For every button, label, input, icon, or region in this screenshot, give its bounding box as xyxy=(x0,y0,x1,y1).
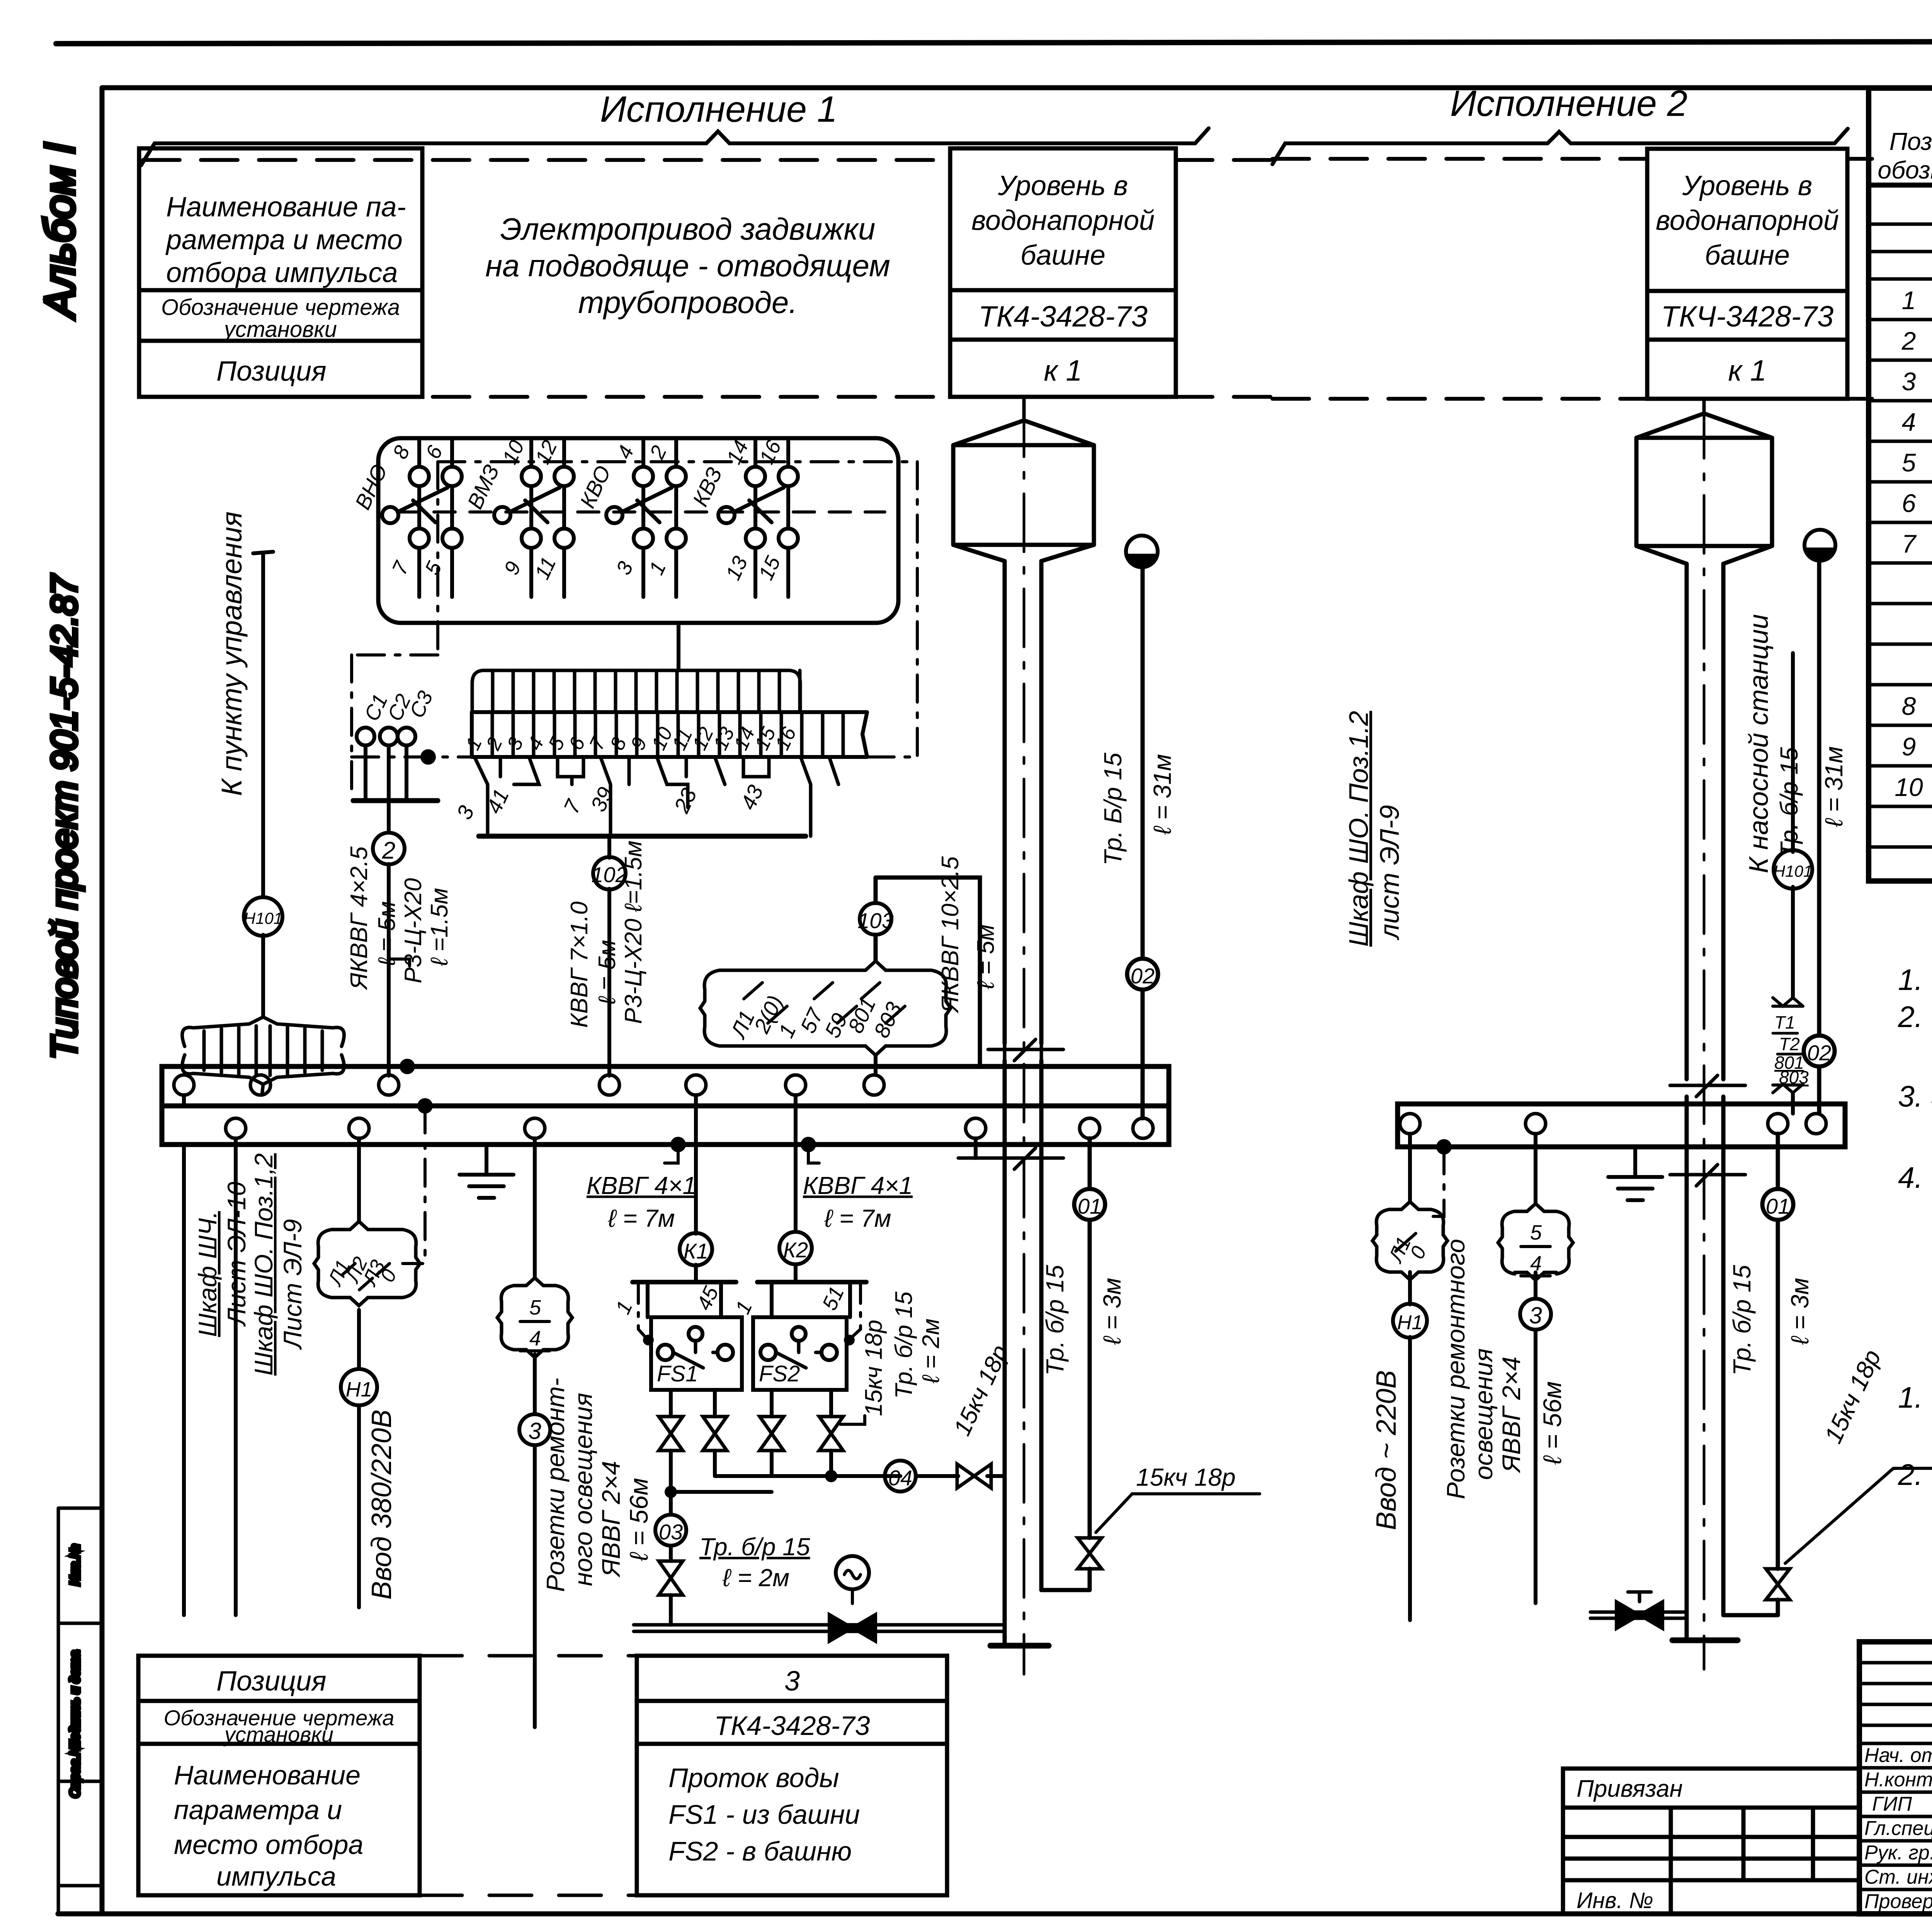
svg-text:установки: установки xyxy=(223,1722,333,1747)
position table right box xyxy=(637,1656,947,1895)
level box exec1 xyxy=(950,148,1176,397)
svg-text:Т1: Т1 xyxy=(1774,1012,1795,1032)
bus1 terminal circles bottom row xyxy=(226,1118,1153,1138)
svg-text:15кч 18р: 15кч 18р xyxy=(861,1320,887,1416)
stub wire at bus1 xyxy=(974,1138,978,1158)
svg-text:02: 02 xyxy=(1131,964,1155,988)
svg-text:Р3-Ц-Х20: Р3-Ц-Х20 xyxy=(400,878,427,983)
collect line 04 xyxy=(715,1474,1005,1478)
ground symbol at bus1 xyxy=(459,1145,514,1198)
terminal bottom rail xyxy=(479,834,806,839)
junction dot xyxy=(420,749,436,765)
svg-text:03: 03 xyxy=(659,1520,683,1544)
svg-text:ЯКВВГ 4×2.5: ЯКВВГ 4×2.5 xyxy=(346,846,372,990)
sensor float tower1 xyxy=(1126,536,1158,567)
tower1 taper xyxy=(953,545,1094,561)
svg-text:Р3-Ц-Х20 ℓ=1.5м: Р3-Ц-Х20 ℓ=1.5м xyxy=(620,840,647,1024)
BOM table grid xyxy=(1869,88,1932,881)
svg-text:Н.контр.: Н.контр. xyxy=(1864,1769,1932,1791)
marker 02 t2 xyxy=(1804,1036,1835,1066)
svg-text:1. Позиции приборов указаны: 1. Позиции приборов указаны по чертежу Э… xyxy=(1898,963,1932,997)
wire xyxy=(261,935,265,1017)
tower2 tank xyxy=(1636,438,1772,546)
wire to control point xyxy=(253,552,273,897)
position table left box xyxy=(138,1656,420,1895)
wire xyxy=(262,1084,263,1095)
leader 15кч18р t2 xyxy=(1785,1468,1932,1563)
terminal jumper tabs xyxy=(474,757,838,836)
valve on 01 t1 xyxy=(1078,1538,1102,1569)
valve xyxy=(659,1417,683,1451)
wire from brace to bus xyxy=(874,1055,878,1075)
svg-text:водонапорной: водонапорной xyxy=(1656,205,1839,236)
contact group КВЗ xyxy=(755,438,788,597)
svg-text:Позиция: Позиция xyxy=(216,1666,327,1697)
svg-text:лист ЭЛ-9: лист ЭЛ-9 xyxy=(1374,805,1405,940)
svg-text:Шкаф ШО. Поз.1,2: Шкаф ШО. Поз.1,2 xyxy=(249,1153,278,1376)
braced wire list Л1..803 xyxy=(700,970,719,1046)
tower2 center line xyxy=(1703,400,1706,1669)
dash-dot link to pos 2 xyxy=(403,1106,425,1264)
valve xyxy=(703,1417,727,1451)
cable marker Н1 exec2 xyxy=(1393,1304,1427,1338)
switch block rounded box xyxy=(378,438,898,623)
svg-text:FS2 - в башню: FS2 - в башню xyxy=(668,1836,852,1866)
impulse pipe 02 t2 xyxy=(1817,561,1821,1114)
svg-text:Наименование па-: Наименование па- xyxy=(166,192,406,223)
svg-text:Н1: Н1 xyxy=(1397,1311,1423,1334)
impulse pipe 02 t1 xyxy=(1141,567,1145,1118)
svg-text:ЯВВГ 2×4: ЯВВГ 2×4 xyxy=(1497,1357,1526,1473)
svg-text:башне: башне xyxy=(1020,240,1105,271)
junction dot bus1 c xyxy=(670,1137,686,1152)
svg-text:Тр. б/р 15: Тр. б/р 15 xyxy=(891,1291,917,1399)
svg-text:8: 8 xyxy=(1902,692,1916,720)
svg-text:3. Защитное зануление выполн: 3. Защитное зануление выполнить согласно… xyxy=(1898,1080,1932,1113)
cable marker 103 xyxy=(860,903,891,935)
terminal С2 xyxy=(380,728,398,745)
svg-text:3: 3 xyxy=(1529,1303,1542,1328)
impulse pipe 01 t2 xyxy=(1723,1134,1778,1615)
wire cable 103 elbow xyxy=(876,878,980,1066)
tower2 bottom pipe xyxy=(1590,1612,1687,1618)
tower1 shaft break marks xyxy=(958,1039,1063,1169)
svg-text:установки: установки xyxy=(223,317,337,342)
level box exec2 xyxy=(1647,149,1847,399)
terminal С3 xyxy=(398,728,415,745)
svg-text:Тр. б/р 15: Тр. б/р 15 xyxy=(1775,747,1803,858)
svg-text:Инв. №: Инв. № xyxy=(1577,1888,1653,1913)
tower2 taper xyxy=(1636,546,1772,564)
wire H1 input xyxy=(357,1138,361,1607)
svg-text:4: 4 xyxy=(1902,408,1916,436)
svg-text:освещения: освещения xyxy=(1469,1348,1498,1480)
bus box execution 2 xyxy=(1398,1104,1845,1147)
bus2 terminal circles xyxy=(1400,1114,1826,1134)
svg-text:2: 2 xyxy=(1901,327,1916,355)
svg-text:4: 4 xyxy=(1530,1252,1542,1275)
dashed zone line top, execution 1 xyxy=(143,158,950,162)
svg-text:4: 4 xyxy=(529,1327,541,1350)
svg-text:Уровень в: Уровень в xyxy=(998,170,1128,201)
svg-text:Шкаф ШО. Поз.1.2: Шкаф ШО. Поз.1.2 xyxy=(1344,711,1374,947)
junction dot bus2 xyxy=(1436,1139,1452,1155)
svg-text:2. Определить марку и сече: 2. Определить марку и сечение кабелей Н1… xyxy=(1898,1458,1932,1492)
tower1 tank xyxy=(953,445,1094,545)
svg-text:К насосной станции: К насосной станции xyxy=(1743,614,1774,873)
svg-text:Уровень в: Уровень в xyxy=(1682,170,1812,201)
tower1 center line xyxy=(1023,399,1026,1674)
marker 04 xyxy=(885,1461,916,1492)
pump circle xyxy=(836,1556,869,1589)
wire Н1 exec2 xyxy=(1408,1134,1412,1620)
svg-text:Лист ЭЛ-9: Лист ЭЛ-9 xyxy=(278,1219,307,1350)
svg-text:ТК4-3428-73: ТК4-3428-73 xyxy=(978,300,1148,333)
contact group КВО xyxy=(643,438,676,597)
tower2 shaft xyxy=(1687,564,1723,1640)
svg-text:ТКЧ-3428-73: ТКЧ-3428-73 xyxy=(1661,300,1834,333)
svg-text:ℓ = 7м: ℓ = 7м xyxy=(607,1204,675,1232)
svg-text:Ввод 380/220В: Ввод 380/220В xyxy=(366,1410,397,1600)
svg-text:803: 803 xyxy=(1779,1067,1809,1087)
marker 01 t1 xyxy=(1074,1189,1105,1220)
wire cable 2 xyxy=(387,801,391,1076)
svg-text:Исполнение 1: Исполнение 1 xyxy=(600,89,837,130)
svg-text:Тр. б/р 15: Тр. б/р 15 xyxy=(699,1533,810,1561)
sheet top cut line xyxy=(56,41,1932,44)
wire K2 xyxy=(794,1095,798,1282)
svg-text:FS1 - из башни: FS1 - из башни xyxy=(668,1799,860,1830)
bracket 2 xyxy=(1272,129,1848,164)
junction dot bus1 a xyxy=(400,1059,415,1074)
svg-text:КВВГ 4×1: КВВГ 4×1 xyxy=(587,1172,696,1199)
terminal numbered row xyxy=(472,712,867,757)
wire to cabinet ШЧ xyxy=(182,1095,186,1615)
svg-text:5: 5 xyxy=(529,1296,541,1319)
svg-text:Наименование: Наименование xyxy=(174,1760,361,1790)
svg-text:ного освещения: ного освещения xyxy=(569,1393,597,1586)
svg-text:01: 01 xyxy=(1766,1194,1790,1218)
cable marker К2 xyxy=(779,1232,812,1264)
tower2 top tick xyxy=(1702,400,1706,413)
svg-text:К2: К2 xyxy=(783,1238,808,1262)
svg-text:на подводяще - отводящем: на подводяще - отводящем xyxy=(485,248,890,283)
contact group ВМЗ xyxy=(531,438,564,597)
wire 3 exec2 xyxy=(1534,1134,1537,1603)
label tick xyxy=(389,959,410,966)
svg-text:Шкаф ШЧ.: Шкаф ШЧ. xyxy=(193,1211,222,1337)
pipe valve t2 xyxy=(1616,1602,1663,1629)
drain double pipe xyxy=(634,1625,1005,1631)
svg-text:КВВГ 7×1.0: КВВГ 7×1.0 xyxy=(566,901,593,1028)
svg-text:Н1: Н1 xyxy=(345,1378,372,1401)
svg-text:5: 5 xyxy=(1530,1221,1542,1244)
dash-dot link exec2 xyxy=(1431,1147,1444,1216)
svg-text:3: 3 xyxy=(528,1418,541,1444)
junction dot bus1 b xyxy=(417,1098,433,1114)
svg-text:к 1: к 1 xyxy=(1728,354,1766,387)
leader 15кч18р t1 xyxy=(1096,1494,1260,1532)
cable marker Н101 xyxy=(244,897,282,936)
svg-text:Привязан: Привязан xyxy=(1577,1776,1683,1802)
svg-text:Розетки ремонтного: Розетки ремонтного xyxy=(1441,1239,1470,1499)
svg-text:Ст. инж: Ст. инж xyxy=(1864,1866,1932,1888)
svg-text:место отбора: место отбора xyxy=(174,1830,363,1860)
svg-text:15кч 18р: 15кч 18р xyxy=(1136,1463,1236,1491)
svg-text:7: 7 xyxy=(1902,529,1917,558)
svg-text:FS2: FS2 xyxy=(759,1361,800,1386)
terminal strip upper row xyxy=(472,670,800,712)
tower2 base plate xyxy=(1672,1638,1738,1643)
cabinet boundary dash-dot xyxy=(352,462,917,797)
svg-text:Т2: Т2 xyxy=(1779,1034,1800,1054)
valve xyxy=(760,1417,784,1451)
svg-text:2. Кабель к розеткам в ме: 2. Кабель к розеткам в местах возможных … xyxy=(1898,1000,1932,1034)
svg-text:башне: башне xyxy=(1705,240,1790,271)
stamp names xyxy=(1864,1744,1932,1913)
tower2 shaft break marks xyxy=(1670,1075,1745,1186)
leader 15кч18р xyxy=(840,1416,865,1424)
dashed connector xyxy=(420,1656,637,1895)
header table exec1 xyxy=(139,148,422,397)
svg-text:ℓ = 5м: ℓ = 5м xyxy=(973,924,999,990)
tower1 roof xyxy=(953,420,1094,445)
svg-text:Типовой проект 901-5-42.87: Типовой проект 901-5-42.87 xyxy=(44,573,84,1059)
svg-text:5: 5 xyxy=(1902,448,1916,477)
svg-text:раметра и место: раметра и место xyxy=(165,224,403,255)
valve xyxy=(659,1561,683,1595)
cable marker 102 xyxy=(593,857,626,889)
junction dot bus1 d xyxy=(801,1137,816,1152)
cable marker 2 xyxy=(373,833,405,864)
contact group ВНО xyxy=(419,438,452,597)
left margin stamp strip xyxy=(58,1508,102,1914)
svg-text:ЯВВГ 2×4: ЯВВГ 2×4 xyxy=(597,1461,625,1578)
svg-text:ℓ = 3м: ℓ = 3м xyxy=(1098,1278,1126,1345)
tower1 shaft xyxy=(1005,561,1041,1646)
svg-text:ℓ = 7м: ℓ = 7м xyxy=(824,1204,891,1232)
svg-text:3: 3 xyxy=(1902,367,1916,396)
sensor float tower2 xyxy=(1804,530,1835,561)
svg-text:ℓ = 2м: ℓ = 2м xyxy=(722,1564,789,1592)
braced list Л1/0 exec2 xyxy=(1372,1209,1389,1272)
svg-text:импульса: импульса xyxy=(216,1861,336,1891)
tower1 top tick xyxy=(1022,399,1026,420)
svg-text:ℓ = 5м: ℓ = 5м xyxy=(594,940,621,1005)
svg-text:Обозначение чертежа: Обозначение чертежа xyxy=(161,295,400,320)
stamp left grid xyxy=(1859,1642,1932,1914)
svg-text:Нач. отд.: Нач. отд. xyxy=(1864,1744,1932,1767)
valve on 01 t2 xyxy=(1766,1569,1790,1600)
svg-text:ℓ = 31м: ℓ = 31м xyxy=(1820,746,1848,827)
svg-text:Н101: Н101 xyxy=(244,909,282,927)
svg-text:ℓ = 56м: ℓ = 56м xyxy=(624,1478,653,1561)
svg-text:ℓ = 31м: ℓ = 31м xyxy=(1148,754,1176,835)
svg-text:1: 1 xyxy=(1902,286,1916,315)
collect line 03 xyxy=(671,1492,772,1625)
marker 01 t2 xyxy=(1762,1189,1793,1220)
braced list 5/4 exec2 xyxy=(1498,1211,1515,1274)
bus1 terminal circles top row xyxy=(174,1075,884,1095)
pipe valve xyxy=(957,1464,991,1488)
cable marker 3 xyxy=(519,1414,550,1445)
FS2 shelf xyxy=(757,1280,866,1284)
main stamp box xyxy=(1859,1642,1932,1914)
bus box execution 1 xyxy=(162,1066,1169,1145)
svg-text:параметра и: параметра и xyxy=(174,1795,342,1825)
svg-text:02: 02 xyxy=(1807,1041,1831,1065)
cable marker Н101 exec2 xyxy=(1774,850,1812,889)
screen symbol xyxy=(182,1017,344,1046)
svg-text:ℓ = 3м: ℓ = 3м xyxy=(1786,1278,1814,1345)
svg-text:10: 10 xyxy=(1895,773,1923,801)
tower1 water inlet elbow xyxy=(1041,1588,1087,1592)
leader from bus xyxy=(808,1145,819,1163)
braced list Л1 Л2 Л3 0 xyxy=(314,1230,332,1298)
svg-text:ГИП: ГИП xyxy=(1872,1793,1912,1815)
FS1 box xyxy=(651,1317,742,1390)
bracket 1 xyxy=(141,128,1209,165)
svg-text:водонапорной: водонапорной xyxy=(971,205,1155,236)
wire socket circuit 3 xyxy=(533,1138,537,1727)
privyazan box xyxy=(1563,1769,1859,1914)
svg-text:Гл.спец.: Гл.спец. xyxy=(1864,1817,1932,1840)
svg-text:Позиция: Позиция xyxy=(216,356,327,387)
marker 02 t1 xyxy=(1127,959,1158,990)
svg-text:Инв.№: Инв.№ xyxy=(68,1544,82,1585)
svg-text:Подпись и дата: Подпись и дата xyxy=(68,1650,82,1750)
FS2 contact xyxy=(760,1345,776,1360)
terminal bar xyxy=(353,798,438,803)
svg-text:4. При монтаже электрообо: 4. При монтаже электрооборудования и КИП… xyxy=(1898,1161,1932,1194)
svg-text:Розетки ремонт-: Розетки ремонт- xyxy=(541,1378,570,1592)
svg-text:ℓ = 2м: ℓ = 2м xyxy=(918,1318,944,1384)
wire cable 102 xyxy=(607,836,611,1076)
marker 03 xyxy=(655,1515,686,1546)
cable marker 3 exec2 xyxy=(1520,1299,1551,1330)
valve (15кч18р) xyxy=(819,1417,843,1451)
svg-text:Исполнение 2: Исполнение 2 xyxy=(1450,83,1687,124)
dashed zone line bottom, execution 2 xyxy=(1272,397,1647,401)
svg-text:6: 6 xyxy=(1902,489,1916,517)
braced list Т1 Т2 801 803 xyxy=(1773,998,1803,1093)
svg-text:Ввод ~ 220В: Ввод ~ 220В xyxy=(1371,1370,1402,1530)
svg-text:ℓ = 5м: ℓ = 5м xyxy=(374,901,400,966)
svg-text:Поз.: Поз. xyxy=(1889,128,1932,155)
dashed zone line bottom, execution 1 xyxy=(143,395,950,399)
svg-text:9: 9 xyxy=(1902,732,1916,761)
svg-text:3: 3 xyxy=(784,1666,800,1697)
svg-text:обозн.: обозн. xyxy=(1878,156,1932,184)
svg-text:Тр. б/р 15: Тр. б/р 15 xyxy=(1041,1265,1069,1376)
svg-text:04: 04 xyxy=(888,1466,912,1490)
svg-text:Тр. б/р 15: Тр. б/р 15 xyxy=(1728,1265,1756,1376)
svg-text:К пункту управления: К пункту управления xyxy=(216,512,248,796)
linkage dashed line xyxy=(398,510,885,514)
svg-text:2: 2 xyxy=(382,837,395,864)
dashed zone line top, execution 2 xyxy=(1272,157,1647,161)
FS2 box xyxy=(753,1317,847,1390)
wire to cabinet ШО xyxy=(234,1138,238,1615)
link from switch to terminal strip xyxy=(677,623,680,670)
svg-text:К1: К1 xyxy=(684,1239,708,1263)
svg-text:отбора импульса: отбора импульса xyxy=(166,257,398,288)
terminal С1 xyxy=(357,728,374,745)
svg-text:КВВГ 4×1: КВВГ 4×1 xyxy=(803,1172,913,1199)
svg-text:ℓ = 56м: ℓ = 56м xyxy=(1538,1381,1566,1465)
svg-text:01: 01 xyxy=(1078,1194,1102,1218)
svg-text:трубопроводе.: трубопроводе. xyxy=(578,285,797,320)
svg-text:ℓ =1.5м: ℓ =1.5м xyxy=(426,888,453,966)
svg-text:ТК4-3428-73: ТК4-3428-73 xyxy=(714,1711,870,1741)
svg-text:Альбом I: Альбом I xyxy=(36,143,83,320)
wire K1 xyxy=(694,1095,698,1282)
svg-text:Провер: Провер xyxy=(1864,1890,1932,1913)
svg-text:FS1: FS1 xyxy=(657,1361,698,1386)
FS2 side dashdot xyxy=(852,1282,861,1337)
svg-text:Н101: Н101 xyxy=(1774,862,1812,880)
svg-text:Тр. Б/р 15: Тр. Б/р 15 xyxy=(1099,752,1127,866)
cable marker Н1 xyxy=(341,1369,377,1405)
FS1 contact xyxy=(658,1345,673,1360)
svg-text:Электропривод задвижки: Электропривод задвижки xyxy=(500,212,875,246)
tower2 roof xyxy=(1636,413,1772,438)
svg-text:Рук. гр.: Рук. гр. xyxy=(1864,1842,1932,1864)
svg-text:Проток воды: Проток воды xyxy=(668,1763,839,1793)
pipe big valve xyxy=(829,1614,876,1641)
svg-text:к 1: к 1 xyxy=(1044,354,1082,387)
wire Н101 to pump station xyxy=(1791,653,1795,1114)
ground symbol at bus2 xyxy=(1608,1147,1662,1200)
svg-text:1. В зависимости от налич: 1. В зависимости от наличия электрофицир… xyxy=(1898,1381,1932,1414)
cable marker К1 xyxy=(680,1233,712,1265)
svg-text:103: 103 xyxy=(857,908,893,933)
impulse pipe 01 t1 xyxy=(1041,1138,1090,1590)
braced list 5/4 xyxy=(497,1286,514,1350)
svg-text:ЯКВВГ 10×2.5: ЯКВВГ 10×2.5 xyxy=(937,856,964,1014)
FS1 shelf xyxy=(633,1280,736,1284)
FS1 side dashdot xyxy=(638,1282,645,1337)
impulse pipes from FS boxes xyxy=(671,1390,831,1492)
leader from bus xyxy=(665,1145,678,1163)
tower1 base plate xyxy=(990,1643,1049,1649)
